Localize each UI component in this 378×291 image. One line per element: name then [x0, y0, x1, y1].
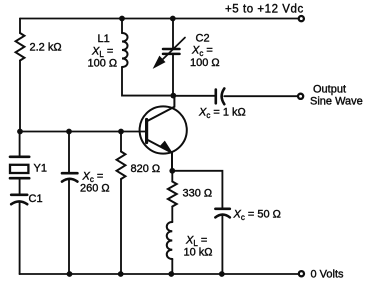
svg-text:100 Ω: 100 Ω	[88, 58, 118, 70]
node Xc50 rail	[219, 271, 225, 277]
inductor XL	[167, 222, 173, 259]
wire left vertical	[19, 19, 21, 34]
node Xc260 junction	[66, 129, 72, 135]
capacitor Xc 1k	[216, 89, 225, 105]
wire C2 top lead	[172, 19, 174, 49]
svg-text:L1: L1	[98, 33, 110, 45]
wire Xc260 branch	[68, 132, 70, 174]
node 820 junction	[118, 129, 124, 135]
wire to crystal	[19, 132, 21, 157]
svg-text:Xc =: Xc =	[191, 45, 213, 59]
resistor R 2.2k	[16, 33, 25, 61]
svg-text:Xc = 1 kΩ: Xc = 1 kΩ	[198, 107, 246, 121]
wire XL to rail	[171, 259, 173, 274]
resistor 820	[117, 152, 126, 180]
wire Xc50 to rail	[221, 215, 223, 275]
svg-text:Output: Output	[313, 84, 346, 96]
wire bottom rail	[20, 273, 298, 275]
capacitor Xc260	[62, 173, 77, 181]
wire emitter	[147, 140, 172, 171]
wire Xc260 to rail	[68, 179, 70, 274]
svg-text:100 Ω: 100 Ω	[190, 57, 220, 69]
svg-text:820 Ω: 820 Ω	[131, 163, 161, 175]
node C2 top	[170, 16, 176, 22]
wire 330 to XL	[171, 207, 173, 223]
node emitter junction	[169, 168, 175, 174]
wire collector	[147, 96, 174, 121]
node emitter rail	[168, 271, 174, 277]
transistor Q1	[140, 106, 187, 153]
wire C2 bottom lead	[172, 54, 174, 96]
svg-text:2.2 kΩ: 2.2 kΩ	[30, 42, 62, 54]
svg-text:+5 to +12 Vdc: +5 to +12 Vdc	[225, 4, 304, 16]
svg-text:0 Volts: 0 Volts	[311, 269, 345, 281]
svg-text:330 Ω: 330 Ω	[183, 188, 213, 200]
wire below 2.2k	[19, 61, 21, 132]
terminal +V	[299, 16, 304, 21]
node Xc260 rail	[67, 271, 73, 277]
crystal Y1	[10, 157, 29, 178]
node base-left junction	[17, 129, 23, 135]
capacitor C2 variable	[163, 49, 180, 54]
svg-text:Sine Wave: Sine Wave	[310, 96, 363, 108]
wire top rail	[20, 18, 298, 20]
capacitor C1	[11, 195, 27, 204]
wire output right	[224, 95, 297, 97]
svg-text:C2: C2	[196, 33, 210, 45]
wire L1 bottom lead	[122, 67, 173, 96]
resistor 330	[168, 182, 177, 207]
terminal output	[298, 94, 303, 99]
node 820 rail	[118, 271, 124, 277]
wire emitter down	[171, 171, 173, 182]
wire output	[173, 95, 215, 97]
wire L1 top lead	[121, 19, 123, 34]
emitter arrow	[160, 142, 171, 152]
node L1 top	[119, 16, 125, 22]
wire 820 to rail	[120, 179, 122, 274]
wire emitter to Xc50	[172, 171, 222, 209]
wire crystal to C1	[19, 178, 21, 194]
svg-text:C1: C1	[29, 193, 43, 205]
wire 820 branch	[120, 132, 122, 152]
svg-text:260 Ω: 260 Ω	[80, 183, 110, 195]
svg-text:Y1: Y1	[34, 163, 47, 175]
node collector junction	[170, 93, 176, 99]
terminal 0V	[299, 271, 304, 276]
inductor L1	[122, 33, 128, 67]
wire C1 to rail	[19, 202, 21, 275]
svg-text:10 kΩ: 10 kΩ	[184, 247, 213, 259]
svg-text:Xc = 50 Ω: Xc = 50 Ω	[233, 209, 281, 223]
capacitor Xc50	[215, 209, 229, 218]
wire base bus	[20, 131, 146, 133]
